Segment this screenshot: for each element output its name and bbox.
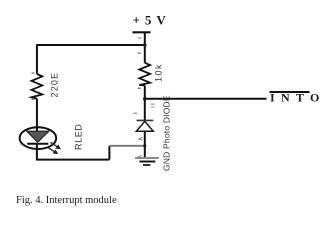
- wire: photodiode anode down to ground: [144, 131, 146, 158]
- wire: horizontal to photodiode anode node: [109, 145, 144, 147]
- svg-text:10k: 10k: [154, 63, 164, 82]
- LED D1 anode triangle: [27, 131, 49, 142]
- svg-text:GND Photo DIODE: GND Photo DIODE: [162, 95, 172, 171]
- LED D1 cathode bar: [27, 143, 48, 145]
- wire: horizontal +5V feed to left branch: [37, 44, 145, 46]
- wire: resistor R1 bottom to LED D1: [36, 99, 38, 132]
- wire: +5V bar down to resistor R2 top: [144, 32, 146, 63]
- caption: [16, 195, 117, 206]
- ground symbol: [138, 156, 142, 159]
- wire: LED D1 cathode down and to ground loop: [37, 144, 110, 160]
- photodiode D2 pin marks: [134, 113, 138, 114]
- resistor R2 10k zigzag: [139, 63, 150, 86]
- photodiode D2 triangle: [136, 121, 153, 131]
- LED D1 emission arrows: [51, 142, 61, 148]
- LED D1 body circle: [20, 127, 57, 149]
- photodiode D2 cathode bar: [137, 119, 154, 121]
- power +5V rail bar: [133, 31, 151, 33]
- node INT0 junction: [143, 97, 147, 101]
- wire: riser up from LED loop: [108, 146, 110, 160]
- svg-text:RLED: RLED: [74, 124, 84, 150]
- node: junction of +5V column and left feed: [143, 43, 147, 47]
- wire: left vertical down to resistor R1: [36, 44, 38, 74]
- svg-text:220E: 220E: [50, 72, 60, 98]
- node INT0 label with overbar: [270, 91, 326, 105]
- resistor R1 220E zigzag: [32, 74, 43, 99]
- wire: INT0 net to the right: [145, 98, 267, 100]
- resistor R1 pin marks: [32, 72, 35, 73]
- resistor R2 pin marks: [138, 37, 142, 38]
- power +5V label: [133, 13, 171, 28]
- node: junction at photodiode anode column: [143, 144, 146, 147]
- wire: resistor R2 bottom to photodiode cathode: [144, 85, 146, 120]
- svg-text:+5V: +5V: [133, 13, 171, 28]
